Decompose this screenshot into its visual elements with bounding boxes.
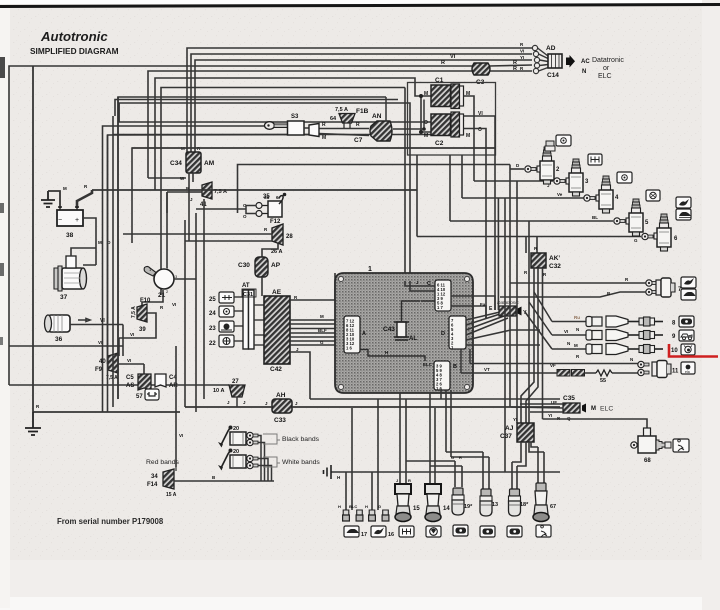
svg-text:C33: C33	[274, 417, 286, 424]
wire feeds sensor 7	[500, 283, 646, 297]
ground bus bottom left	[33, 411, 180, 413]
svg-text:AH: AH	[276, 392, 286, 399]
svg-text:F1B: F1B	[356, 108, 369, 115]
bracket black bands	[263, 434, 280, 444]
svg-text:or: or	[603, 65, 610, 72]
icon box bird	[681, 277, 696, 288]
wire vertical x204	[203, 199, 205, 399]
injector 14	[425, 484, 450, 522]
svg-text:ela: ela	[685, 370, 690, 374]
svg-text:6: 6	[276, 195, 279, 201]
ignition coil 20 upper lever	[218, 426, 233, 448]
icon box 25	[209, 292, 234, 303]
red highlight bracket	[669, 344, 718, 357]
ECU connector A	[344, 316, 366, 353]
wire B out d	[446, 390, 483, 489]
wire C34 left feed	[161, 88, 405, 296]
svg-text:37: 37	[60, 294, 68, 301]
wire sensor67 b	[529, 442, 544, 483]
wire C2 O output down	[464, 129, 487, 319]
svg-text:11: 11	[672, 369, 679, 375]
wire battery area verticals M G	[83, 218, 96, 258]
svg-text:F9: F9	[95, 367, 103, 373]
icon box 22	[209, 335, 234, 347]
wire row8 feed	[534, 292, 586, 322]
staircase wire to C1 left pin M	[103, 78, 511, 412]
svg-text:ELC: ELC	[423, 362, 433, 367]
wire long y164	[238, 165, 511, 214]
svg-text:H: H	[337, 475, 340, 480]
wire 21 right to F10	[142, 279, 196, 312]
wire to C2 left pin O	[119, 103, 431, 122]
scan mark left edge 2	[0, 203, 4, 213]
ignition switch 21	[144, 266, 178, 299]
svg-text:26 A: 26 A	[271, 249, 282, 255]
solenoid valve 4	[596, 176, 619, 213]
svg-text:ELC: ELC	[598, 73, 612, 80]
svg-text:C14: C14	[547, 72, 559, 79]
wire to C2 left pin M	[113, 116, 431, 135]
wire vert inj14 a	[429, 393, 431, 484]
svg-text:S3: S3	[291, 114, 299, 120]
svg-text:34: 34	[151, 474, 158, 480]
wire C43 to C connector	[402, 301, 436, 322]
icon box 23	[209, 321, 234, 332]
ignition coil 20 upper body	[230, 426, 258, 446]
wire y399 row	[310, 398, 560, 400]
svg-text:15: 15	[413, 506, 420, 512]
connector AH C33 hatched	[272, 392, 292, 424]
ECU connector D	[441, 316, 466, 350]
svg-text:C35: C35	[563, 395, 575, 402]
wire row11 bottom feed	[461, 372, 638, 374]
solenoid 2 ring terminal	[525, 166, 536, 172]
svg-text:AD: AD	[546, 45, 556, 52]
icon box car C	[681, 289, 696, 300]
svg-text:Autotronic: Autotronic	[40, 29, 108, 44]
wire vert x537 to AK	[132, 148, 537, 310]
svg-text:23: 23	[209, 326, 216, 332]
svg-text:VI: VI	[98, 340, 102, 345]
icon speaker bottom	[453, 525, 468, 536]
icon 18 gauge	[507, 526, 522, 537]
wire vert x529 sol5 feed	[450, 155, 613, 442]
svg-text:R: R	[408, 478, 411, 483]
connector C5 AS hatched	[126, 374, 151, 390]
wire H from A to B	[360, 350, 425, 362]
wire AN to right verticals	[386, 97, 424, 129]
svg-text:14: 14	[443, 506, 450, 512]
icon box row8	[679, 316, 694, 327]
svg-text:25: 25	[209, 297, 216, 303]
wire AD feed 2	[191, 54, 532, 152]
svg-text:19*: 19*	[464, 504, 473, 510]
svg-text:N: N	[576, 327, 579, 332]
connector C3 hatched	[472, 63, 490, 86]
icon 13 gauge	[480, 526, 495, 537]
relay box outline around C1 C2	[408, 83, 496, 156]
wire S3 feed	[103, 126, 265, 412]
svg-text:N: N	[567, 341, 570, 346]
switch 35	[243, 193, 286, 219]
wire vert plugpair1 b	[351, 408, 353, 510]
wire ground bus y472	[331, 471, 560, 473]
AK C32 connector hatched	[524, 246, 561, 277]
svg-text:67: 67	[550, 504, 556, 510]
svg-text:−: −	[58, 217, 62, 224]
wire fuse41 feed from left	[167, 192, 186, 213]
wire fuse27 to AH line	[236, 397, 238, 407]
arrow to Datatronic	[566, 55, 575, 68]
svg-text:20: 20	[233, 426, 239, 432]
left main vertical x33	[32, 66, 34, 412]
solenoid 6 ring terminal	[642, 233, 653, 239]
wire C1 M right output down	[464, 96, 475, 181]
svg-text:H: H	[365, 504, 368, 509]
svg-text:R: R	[356, 122, 360, 128]
wire B out c	[440, 390, 442, 399]
svg-text:G: G	[320, 340, 324, 345]
svg-text:AK’: AK’	[549, 255, 560, 262]
knock sensor 11 rings	[638, 361, 649, 375]
fuse F14 34	[147, 433, 183, 498]
svg-text:15 A: 15 A	[166, 492, 177, 498]
icon 17 car	[344, 526, 367, 538]
wire battery to ground and staircase	[48, 191, 60, 208]
connector AN hatched	[322, 113, 392, 141]
connector AT C31	[242, 283, 256, 349]
svg-text:B: B	[453, 364, 457, 370]
wire vertical x185	[184, 220, 186, 407]
wire vert x517 sol3 feed	[474, 181, 553, 423]
wire vert inj15 a	[399, 393, 401, 484]
knock sensor 11	[652, 361, 679, 378]
connector AE C42 hatched	[264, 289, 290, 373]
mini plug top right	[545, 141, 555, 151]
switch S3 key symbol	[265, 114, 305, 135]
svg-text:D: D	[441, 331, 445, 337]
wire B out e	[451, 390, 489, 489]
icon box row11	[681, 362, 695, 374]
svg-text:1: 1	[368, 266, 372, 273]
speed sensor 67	[533, 483, 556, 522]
svg-text:18*: 18*	[520, 502, 529, 508]
wire to ECU C pin 1	[115, 88, 405, 282]
fuse F9 40	[95, 353, 118, 381]
injector 15	[395, 484, 420, 522]
wire row10 feed	[525, 312, 586, 349]
svg-text:O: O	[243, 214, 247, 219]
top border line	[0, 5, 720, 7]
connector AD / C14 body	[546, 45, 562, 79]
wires C35 feeds	[511, 404, 563, 412]
svg-text:VI: VI	[127, 358, 131, 363]
svg-text:17: 17	[361, 532, 367, 538]
svg-text:A: A	[362, 331, 366, 337]
svg-text:M: M	[63, 186, 67, 191]
sensor 7 rings	[646, 280, 657, 295]
svg-text:G: G	[634, 238, 638, 243]
svg-text:Datatronic: Datatronic	[497, 300, 519, 306]
icon box row10	[681, 344, 695, 355]
wire C30 down to AE	[261, 277, 263, 296]
scan mark left edge 3	[0, 263, 4, 276]
bottom routing wires	[310, 390, 560, 510]
wire sensor67 a	[531, 442, 538, 483]
plug pair 2	[369, 510, 389, 521]
wire alternator output VI	[70, 319, 123, 325]
icon 16 bird	[371, 526, 394, 538]
svg-text:YI: YI	[548, 413, 552, 418]
wire AD feed 1	[187, 48, 532, 152]
oxygen sensor row 8	[586, 316, 676, 327]
icon box mid dot	[617, 172, 632, 183]
svg-text:AR: AR	[169, 383, 178, 389]
svg-text:O: O	[451, 455, 454, 460]
svg-text:H: H	[338, 504, 341, 509]
svg-text:C34: C34	[170, 160, 182, 167]
svg-text:R: R	[459, 455, 462, 460]
wire AH row y407	[185, 406, 560, 408]
svg-text:C7: C7	[354, 137, 363, 144]
wire vertical x107 lower	[107, 135, 109, 412]
ground symbol bottom middle	[324, 465, 332, 479]
svg-text:M: M	[466, 133, 470, 139]
svg-text:From serial number P179008: From serial number P179008	[57, 517, 164, 526]
svg-text:10 A: 10 A	[213, 388, 224, 394]
svg-text:C5: C5	[126, 375, 134, 381]
svg-text:H: H	[385, 350, 388, 355]
wires coil terminals merge	[258, 436, 271, 482]
svg-text:J: J	[396, 478, 398, 483]
wire vert plugpair2 b	[377, 399, 379, 510]
svg-text:AP: AP	[271, 262, 281, 269]
svg-text:YI: YI	[513, 417, 517, 422]
svg-text:VI: VI	[564, 329, 568, 334]
wire AD feed 5 through C3	[148, 71, 532, 178]
wire AJ to solenoid 68	[543, 419, 648, 430]
icon box 24	[209, 306, 234, 317]
wires AT to AE	[254, 305, 264, 345]
svg-text:22: 22	[209, 341, 216, 347]
svg-text:BLC: BLC	[349, 504, 357, 509]
connector C30 AP hatched	[238, 257, 281, 277]
svg-text:36: 36	[55, 336, 63, 343]
wire sensor18 a	[512, 442, 521, 489]
solenoid valve 3	[566, 159, 589, 196]
capacitor C43 AL	[383, 322, 417, 342]
wire row9 feed	[529, 302, 586, 335]
wire vertical x196	[195, 213, 197, 412]
scan mark left edge 4	[0, 337, 3, 345]
svg-text:VF: VF	[550, 363, 556, 368]
svg-text:38: 38	[66, 232, 74, 239]
scan mark left edge 1	[0, 57, 5, 78]
wire vert inj15 b	[405, 399, 407, 484]
svg-text:C42: C42	[270, 366, 282, 373]
svg-text:ELC: ELC	[600, 406, 613, 413]
wires AK bottom to AJ	[521, 268, 543, 423]
fuse F12 28	[264, 219, 293, 255]
connector C4 AR white	[155, 374, 178, 389]
ECU connector B	[423, 361, 457, 391]
junction dot C2 feed	[419, 130, 423, 134]
wire sensor18 b	[517, 442, 526, 489]
wire vert plugpair2 a	[371, 472, 373, 510]
wire long y148	[132, 148, 495, 243]
wire S3 to C7	[304, 128, 369, 136]
coolant sensor 13	[480, 489, 498, 516]
wire to AN top	[118, 97, 386, 399]
svg-text:40: 40	[99, 359, 106, 365]
icon H gear bottom	[399, 526, 414, 537]
wire vert inj14 b	[434, 408, 436, 484]
svg-text:F14: F14	[147, 482, 158, 488]
wire VI frame to F9	[9, 325, 123, 357]
svg-text:64: 64	[330, 116, 337, 122]
icon box row9	[679, 330, 694, 341]
icon box top1	[556, 135, 571, 146]
svg-text:M: M	[424, 91, 428, 97]
fuse 27 10A	[213, 379, 246, 405]
wires icons to AT	[234, 297, 243, 341]
speed sensor 7	[656, 278, 682, 297]
svg-text:VI: VI	[172, 302, 176, 307]
svg-text:21: 21	[158, 292, 166, 299]
wire vert x511	[509, 165, 511, 408]
svg-text:R: R	[322, 122, 326, 128]
svg-text:AL: AL	[409, 336, 417, 342]
fuse F1B	[330, 107, 369, 128]
icon box 68 runner	[673, 439, 689, 452]
alternator 36	[45, 315, 71, 343]
wire sensor19 a	[406, 461, 455, 487]
right-middle vertical bundle	[132, 148, 641, 472]
wire C7 lower feed	[108, 135, 320, 365]
svg-text:16: 16	[388, 532, 394, 538]
svg-text:G: G	[378, 504, 381, 509]
wire row11 top feed	[461, 349, 638, 373]
svg-text:AN: AN	[372, 113, 382, 120]
wire F9 to C5	[118, 364, 144, 374]
battery ground symbol	[41, 191, 55, 207]
bracket white bands	[263, 457, 280, 467]
svg-text:Ve: Ve	[557, 192, 563, 197]
svg-text:+: +	[75, 217, 79, 224]
svg-text:7,5 A: 7,5 A	[335, 107, 348, 113]
temp sensor 18	[509, 489, 530, 516]
shielded segment VF a	[557, 370, 570, 377]
wire AD feed 3 VI	[195, 60, 532, 152]
solenoid 3 ring terminal	[554, 178, 565, 184]
svg-text:13: 13	[492, 502, 498, 508]
svg-text:VI: VI	[100, 318, 105, 324]
connector C7 white plug	[309, 124, 363, 145]
ECU unit 1 body	[335, 266, 473, 393]
battery 38	[57, 207, 83, 239]
wire 21 to C34 bottom	[167, 173, 193, 268]
solenoid 4 ring terminal	[584, 195, 595, 201]
svg-text:20: 20	[233, 449, 239, 455]
wire starter connections	[71, 248, 96, 265]
svg-text:C31: C31	[243, 292, 253, 298]
svg-text:1 6: 1 6	[346, 346, 352, 351]
svg-text:C30: C30	[238, 262, 250, 269]
svg-text:Black bands: Black bands	[282, 436, 320, 443]
svg-text:White bands: White bands	[282, 459, 320, 466]
wire vertical x176 to F14	[175, 346, 177, 471]
svg-text:R: R	[513, 66, 517, 72]
svg-text:Datatronic: Datatronic	[592, 57, 624, 64]
icon box diff	[646, 190, 660, 201]
relay C1 hatched block	[424, 77, 470, 109]
svg-text:C37: C37	[500, 433, 512, 440]
wires from D fan to E connector	[466, 312, 540, 345]
wire vert x505 sol4 feed	[462, 155, 585, 472]
solenoid valve 6	[654, 214, 678, 251]
svg-text:AT: AT	[242, 283, 250, 289]
solenoid valve 5	[626, 199, 649, 236]
icon box car B	[676, 209, 691, 220]
wire AD feed 4 from left frame	[9, 65, 532, 385]
shielded segment VF b	[572, 370, 585, 377]
svg-text:AM: AM	[204, 160, 214, 167]
svg-text:N: N	[630, 357, 633, 362]
wires C42 to ECU connector A	[290, 273, 344, 399]
wire sol6 feed	[417, 155, 641, 237]
starter motor 37	[54, 256, 87, 301]
svg-text:VI: VI	[179, 433, 183, 438]
wire vert x523 sol2 feed	[510, 168, 524, 170]
svg-text:AE: AE	[272, 289, 282, 296]
left-middle vertical bundle	[108, 97, 205, 471]
svg-text:Red bands: Red bands	[146, 459, 179, 466]
fuse 41 7,5A	[186, 182, 227, 208]
svg-text:C43: C43	[383, 326, 395, 333]
wire fan into AD	[538, 48, 549, 71]
icon fan bottom	[426, 526, 441, 537]
svg-text:M: M	[574, 343, 578, 348]
svg-text:31: 31	[264, 195, 270, 201]
svg-text:AJ: AJ	[505, 425, 514, 432]
AD connector terminal rings	[532, 45, 539, 73]
svg-text:BL: BL	[592, 215, 598, 220]
icon box car A	[676, 197, 691, 208]
ECU connector C	[427, 280, 451, 311]
svg-text:VI: VI	[520, 49, 524, 54]
svg-text:M: M	[98, 240, 102, 245]
solenoid 5 ring terminal	[614, 218, 625, 224]
svg-text:1 7: 1 7	[437, 305, 443, 310]
svg-text:VI: VI	[450, 54, 456, 60]
wire to ECU C pin 2	[119, 103, 410, 281]
svg-text:24: 24	[209, 311, 216, 317]
wire sensor19 b	[430, 466, 462, 487]
solenoid valve 2	[537, 147, 560, 184]
relay C2 hatched block	[424, 111, 483, 147]
connector C35 hatched	[551, 395, 613, 421]
connector E Datatronic hatched	[480, 300, 527, 316]
svg-text:YI: YI	[520, 55, 524, 60]
svg-text:C2: C2	[435, 140, 444, 147]
wire vertical x113	[112, 135, 114, 408]
svg-text:VT: VT	[484, 367, 490, 372]
svg-text:F10: F10	[140, 298, 151, 304]
connector AJ C37 hatched	[500, 417, 534, 442]
svg-text:Fa: Fa	[480, 302, 486, 307]
kickdown solenoid 68	[631, 428, 671, 464]
wire F14 output to coils	[174, 480, 274, 482]
